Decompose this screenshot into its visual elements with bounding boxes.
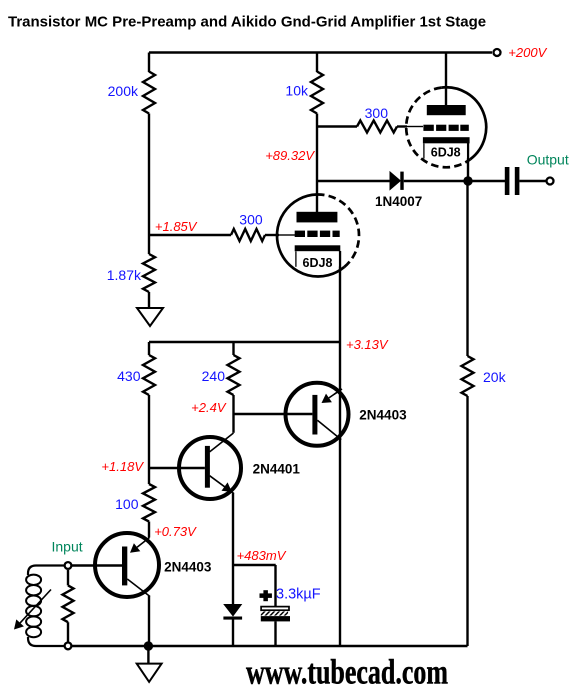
svg-text:2N4403: 2N4403 bbox=[164, 559, 212, 574]
svg-text:20k: 20k bbox=[483, 369, 507, 385]
svg-text:1.87k: 1.87k bbox=[107, 267, 142, 283]
svg-text:200k: 200k bbox=[108, 83, 139, 99]
svg-text:3.3kµF: 3.3kµF bbox=[276, 586, 321, 602]
svg-text:Transistor MC Pre-Preamp and A: Transistor MC Pre-Preamp and Aikido Gnd-… bbox=[8, 14, 486, 31]
svg-text:2N4403: 2N4403 bbox=[359, 408, 407, 423]
svg-text:Output: Output bbox=[527, 152, 569, 168]
svg-text:100: 100 bbox=[115, 496, 139, 512]
svg-text:Input: Input bbox=[52, 539, 83, 555]
svg-text:+0.73V: +0.73V bbox=[154, 524, 197, 539]
svg-text:+483mV: +483mV bbox=[237, 548, 287, 563]
svg-text:+3.13V: +3.13V bbox=[346, 337, 389, 352]
svg-text:240: 240 bbox=[202, 368, 226, 384]
svg-text:1N4007: 1N4007 bbox=[375, 194, 422, 209]
svg-text:+1.18V: +1.18V bbox=[101, 459, 144, 474]
svg-text:+200V: +200V bbox=[508, 45, 547, 60]
svg-text:300: 300 bbox=[239, 211, 263, 227]
svg-text:+1.85V: +1.85V bbox=[155, 219, 198, 234]
svg-text:www.tubecad.com: www.tubecad.com bbox=[246, 653, 448, 689]
svg-text:6DJ8: 6DJ8 bbox=[431, 145, 461, 159]
svg-text:430: 430 bbox=[117, 368, 141, 384]
svg-text:+89.32V: +89.32V bbox=[265, 148, 315, 163]
svg-text:300: 300 bbox=[365, 105, 389, 121]
svg-text:+2.4V: +2.4V bbox=[191, 400, 227, 415]
svg-text:2N4401: 2N4401 bbox=[253, 461, 301, 476]
svg-text:10k: 10k bbox=[285, 83, 309, 99]
svg-text:6DJ8: 6DJ8 bbox=[303, 256, 333, 270]
